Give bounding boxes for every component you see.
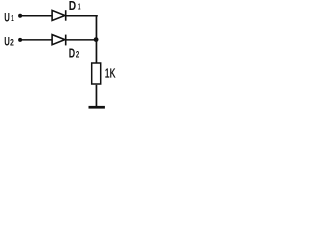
wire U1 to D1 anode xyxy=(20,15,52,17)
ground xyxy=(89,106,105,109)
svg-text:2: 2 xyxy=(76,49,79,59)
junction dot xyxy=(94,37,99,42)
svg-text:1: 1 xyxy=(11,14,14,23)
diode D1 xyxy=(52,10,66,21)
svg-text:1K: 1K xyxy=(105,65,116,80)
wire U2 to D2 anode xyxy=(20,39,52,41)
svg-text:U: U xyxy=(4,11,10,25)
diode D2 xyxy=(52,35,66,46)
label D2 xyxy=(69,46,80,60)
node U1 label xyxy=(4,11,14,25)
svg-text:1: 1 xyxy=(78,1,81,11)
svg-text:U: U xyxy=(4,35,10,49)
svg-text:2: 2 xyxy=(10,37,14,47)
terminal dot U1 xyxy=(18,14,22,18)
svg-text:D: D xyxy=(69,0,76,13)
wire resistor to ground xyxy=(96,85,98,106)
node U2 label xyxy=(4,35,14,49)
resistor R1 body xyxy=(92,63,101,84)
wire D1 cathode to right corner xyxy=(66,15,97,17)
svg-text:D: D xyxy=(69,46,75,60)
label D1 xyxy=(69,0,81,13)
terminal dot U2 xyxy=(18,38,22,42)
wire D2 cathode to junction xyxy=(66,39,94,41)
wire right vertical drop xyxy=(96,15,98,63)
